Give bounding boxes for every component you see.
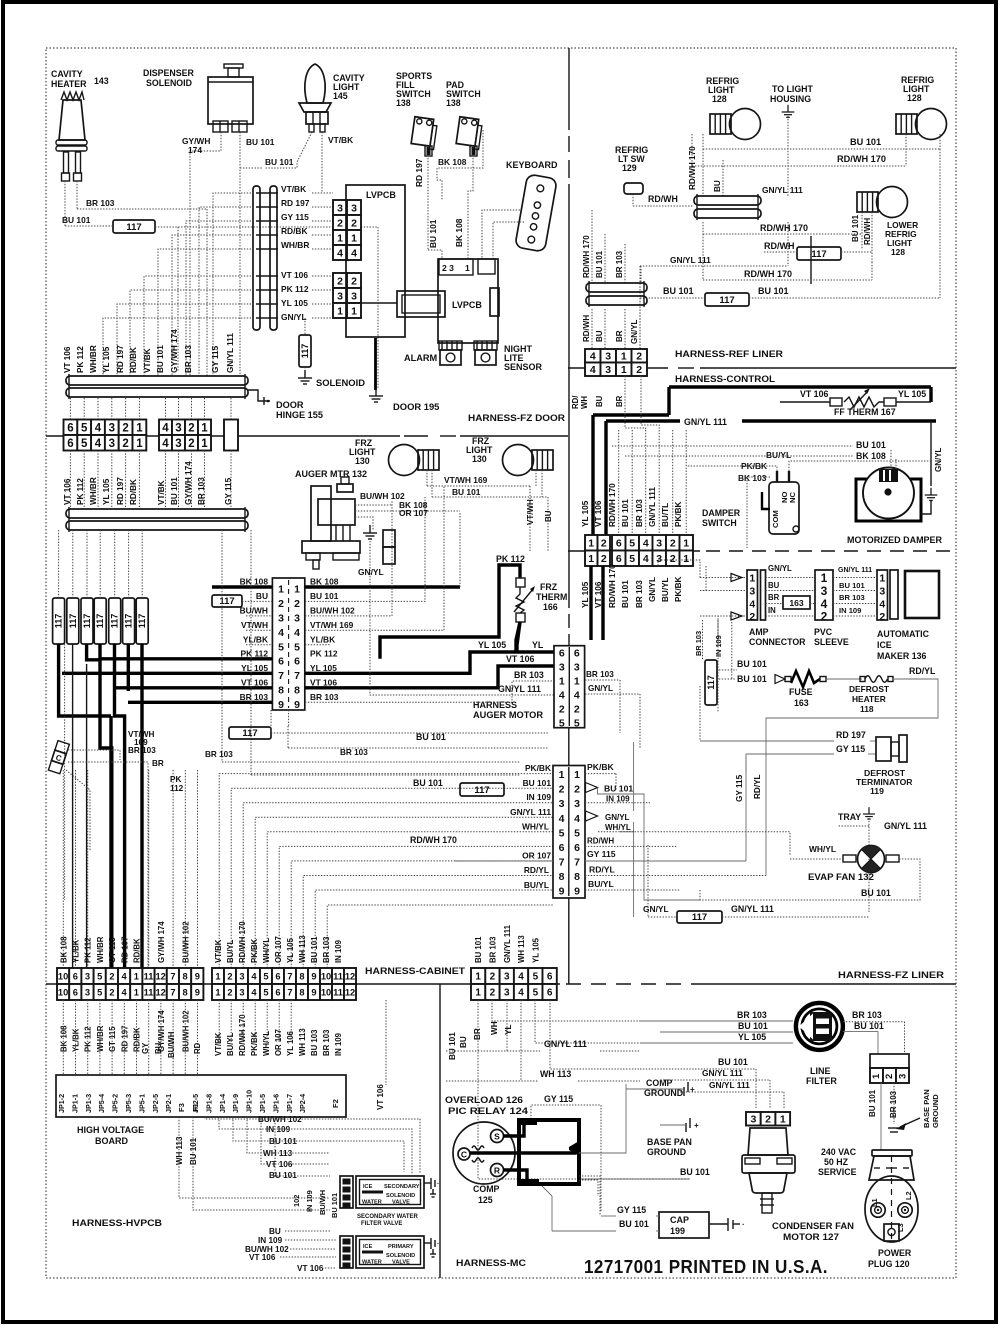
svg-text:DOOR 195: DOOR 195 [393,401,439,412]
svg-text:11: 11 [333,971,343,981]
svg-text:5: 5 [559,827,565,839]
svg-text:VT/WH: VT/WH [241,620,268,630]
svg-text:RD/WH: RD/WH [764,241,795,251]
svg-text:3: 3 [504,972,510,983]
svg-text:RD/WH: RD/WH [863,218,872,245]
sports fill switch 138 [411,117,438,150]
svg-text:BK 103: BK 103 [738,473,767,483]
damper switch wires [789,461,931,471]
svg-text:YL 105: YL 105 [281,298,308,308]
wires frz lights [426,470,428,486]
wire BU/WH pin3 [246,615,272,617]
svg-text:9: 9 [559,886,565,898]
svg-text:BU 101: BU 101 [619,1219,649,1229]
svg-text:RD/WH 170: RD/WH 170 [744,269,792,279]
svg-text:PIC RELAY 124: PIC RELAY 124 [448,1106,528,1116]
svg-text:BASE PAN: BASE PAN [647,1137,692,1147]
svg-text:BU: BU [595,330,604,342]
svg-text:OR 107: OR 107 [274,936,283,963]
svg-text:2: 2 [351,217,357,229]
svg-text:5: 5 [574,718,580,730]
thick wires auger pins 6-9 left [100,657,272,660]
svg-text:9: 9 [574,886,580,898]
wire RD/YL loop [766,679,938,876]
svg-text:2: 2 [227,987,232,997]
svg-text:4: 4 [518,972,524,983]
svg-text:199: 199 [670,1226,685,1236]
ice maker connector [877,570,888,620]
svg-text:HARNESS-MC: HARNESS-MC [456,1258,526,1268]
ref liner lamp holder bars [586,283,647,292]
svg-text:PK 112: PK 112 [310,648,338,658]
svg-text:RD/: RD/ [571,395,580,409]
svg-text:12: 12 [156,971,166,981]
svg-text:2: 2 [670,553,676,565]
secondary valve cap symbol [424,1182,431,1184]
svg-text:YL/BK: YL/BK [72,1028,81,1052]
svg-text:PK/BK: PK/BK [525,763,551,773]
svg-text:BU 101: BU 101 [265,157,294,167]
svg-text:174: 174 [188,145,202,155]
wire to defrost heater [826,678,862,680]
svg-text:PK/BK: PK/BK [674,501,683,527]
svg-text:DOOR: DOOR [276,400,304,410]
svg-text:SERVICE: SERVICE [818,1167,857,1177]
svg-text:PK: PK [170,775,181,784]
wire GN/YL right [370,541,554,695]
svg-text:DEFROST: DEFROST [849,684,890,694]
svg-text:SWITCH: SWITCH [702,518,737,528]
svg-text:FILTER VALVE: FILTER VALVE [361,1221,402,1227]
svg-text:AMP: AMP [749,627,769,637]
svg-text:1: 1 [278,584,284,596]
svg-text:WH: WH [580,396,589,409]
svg-text:HEATER: HEATER [852,694,886,704]
wire BR 103 row [288,747,548,749]
svg-text:128: 128 [712,94,727,104]
svg-text:4: 4 [559,813,565,825]
svg-text:BU 101: BU 101 [737,674,767,684]
door hinge bars upper [66,376,248,385]
svg-text:BU 101: BU 101 [850,137,881,147]
svg-text:4: 4 [95,438,102,450]
svg-text:BU 101: BU 101 [868,1089,877,1117]
svg-text:WH 113: WH 113 [298,935,307,963]
svg-text:JP2-4: JP2-4 [298,1094,307,1113]
svg-text:BU 101: BU 101 [310,936,319,963]
svg-text:BR 103: BR 103 [322,936,331,963]
control connector 6-5-4-3-2-1 block [612,535,626,551]
svg-text:1: 1 [879,573,885,585]
refrig lt sw 129 [624,183,643,194]
svg-text:BK 108: BK 108 [240,577,269,587]
svg-text:BU 101: BU 101 [595,250,604,278]
svg-text:2: 2 [122,438,128,450]
svg-text:BU 101: BU 101 [330,1193,339,1218]
auger 9-pin connector [272,578,304,710]
wires from thermostat [68,750,120,760]
svg-text:WH/YL: WH/YL [262,1031,271,1056]
frz door thermostat C [48,741,69,774]
svg-text:SECONDARY: SECONDARY [384,1184,420,1190]
svg-text:VT 106: VT 106 [376,1084,385,1110]
svg-text:117: 117 [54,614,64,629]
svg-text:RD 197: RD 197 [414,158,424,187]
svg-text:RD/WH 170: RD/WH 170 [608,483,617,527]
svg-text:GY: GY [141,1042,150,1054]
svg-text:GN/YL 111: GN/YL 111 [684,417,727,427]
svg-text:3: 3 [294,612,300,624]
svg-text:1: 1 [559,769,565,781]
wire loop to valves [330,1119,420,1174]
svg-text:143: 143 [94,76,109,86]
compressor 125 [453,1122,515,1184]
svg-text:RD 197: RD 197 [116,477,125,505]
wire to splice [65,225,113,227]
svg-text:166: 166 [543,602,558,612]
svg-text:PK 112: PK 112 [241,648,269,658]
svg-text:2: 2 [109,987,114,997]
wire dispenser BU 101 [239,132,241,376]
svg-text:1: 1 [821,571,828,585]
svg-text:BU 101: BU 101 [839,581,866,590]
svg-text:VT 106: VT 106 [241,677,268,687]
svg-text:10: 10 [321,971,331,981]
svg-text:8: 8 [574,871,580,883]
svg-text:6: 6 [559,842,565,854]
divider vertical x440 (HVPCB/MC) [439,984,441,1278]
seven 117 splice boxes [53,598,65,644]
svg-text:5: 5 [81,438,88,450]
svg-text:YL 105: YL 105 [310,663,337,673]
svg-text:BU 101: BU 101 [856,440,886,450]
divider control/cabinet line [568,550,700,552]
svg-text:3: 3 [605,364,611,376]
svg-text:117: 117 [124,614,134,629]
thick wire YL 105 right [305,652,554,673]
svg-text:YL 105: YL 105 [898,389,926,399]
svg-text:BU 101: BU 101 [663,286,694,296]
svg-text:GN/YL: GN/YL [643,904,669,914]
svg-text:WATER: WATER [362,1260,382,1266]
svg-text:JP1-9: JP1-9 [231,1094,240,1113]
svg-text:1: 1 [134,971,139,981]
svg-text:130: 130 [472,454,487,464]
svg-text:4: 4 [337,247,343,259]
divider HARNESS-REF LINER line [568,367,640,369]
thick verticals from 117 boxes to cabinet [59,644,111,716]
wire GN/YL row [640,265,788,267]
svg-text:5: 5 [97,971,102,981]
svg-text:6: 6 [275,971,280,981]
svg-text:BR 103: BR 103 [737,1010,767,1020]
svg-text:112: 112 [170,784,184,793]
svg-text:JP1-8: JP1-8 [204,1094,213,1113]
svg-text:JP5-4: JP5-4 [97,1094,106,1113]
wires connector A down [69,451,71,510]
svg-text:BR 103: BR 103 [615,250,624,278]
svg-text:RD 197: RD 197 [836,730,866,740]
svg-text:117: 117 [126,222,141,233]
label BR 103 splice row [229,727,271,739]
svg-text:BU 101: BU 101 [448,1032,457,1060]
wire BU 101 top [703,148,940,150]
svg-text:4: 4 [590,351,596,363]
svg-text:COM: COM [771,510,780,528]
svg-text:VT 106: VT 106 [310,677,337,687]
svg-text:BU 103: BU 103 [310,1029,319,1056]
svg-text:9: 9 [311,987,316,997]
svg-text:BR 103: BR 103 [839,593,865,602]
svg-text:GN/YL: GN/YL [648,577,657,602]
wires holder to ref block [591,309,593,349]
svg-text:2: 2 [351,275,357,287]
evap wires [700,859,920,900]
svg-text:2: 2 [574,704,580,716]
svg-text:WH/YL: WH/YL [605,823,631,832]
comp ground symbol [687,1082,689,1092]
svg-text:5: 5 [629,553,635,565]
svg-text:GN/YL 111: GN/YL 111 [503,924,512,963]
auger cap component [383,530,395,547]
svg-text:3: 3 [85,987,90,997]
svg-text:119: 119 [870,786,884,796]
svg-text:SOLENOID: SOLENOID [386,1193,415,1199]
svg-text:BU: BU [544,510,553,522]
secondary water valve [340,1176,353,1208]
svg-text:2: 2 [188,438,194,450]
svg-text:AUGER MTR 132: AUGER MTR 132 [295,469,367,479]
svg-text:COMP: COMP [646,1078,673,1088]
svg-text:1: 1 [683,538,689,550]
svg-text:HARNESS-FZ DOOR: HARNESS-FZ DOOR [468,413,565,423]
divider HARNESS-FZ DOOR line [46,435,400,437]
svg-text:4: 4 [95,422,102,434]
svg-text:BK 108: BK 108 [59,1025,68,1052]
cabinet block 3 [471,968,485,984]
svg-text:6: 6 [294,655,300,667]
svg-text:HARNESS-CONTROL: HARNESS-CONTROL [675,374,775,384]
svg-text:JP1-4: JP1-4 [218,1094,227,1113]
svg-text:JP2-5: JP2-5 [151,1094,160,1113]
svg-text:L3: L3 [896,1223,905,1232]
svg-text:7: 7 [170,987,175,997]
svg-text:WH 113: WH 113 [298,1028,307,1056]
svg-text:12: 12 [345,971,355,981]
svg-text:3: 3 [109,438,115,450]
svg-text:125: 125 [478,1195,493,1205]
svg-text:PK/BK: PK/BK [250,938,259,963]
svg-text:RD/WH 170: RD/WH 170 [688,146,697,190]
svg-text:BU 101: BU 101 [523,778,552,788]
svg-text:BU 101: BU 101 [758,286,789,296]
svg-text:BU 101: BU 101 [452,487,481,497]
auger motor wires right [355,504,392,506]
svg-text:RD 197: RD 197 [281,198,310,208]
connector block door 6-5-4-3-2-1 [64,420,78,436]
connector block door 4-3-2-1 [159,420,172,436]
svg-text:TERMINATOR: TERMINATOR [856,777,913,787]
svg-text:BU 101: BU 101 [62,215,91,225]
svg-text:BU/YL: BU/YL [661,577,670,602]
svg-text:CAVITY: CAVITY [51,69,83,79]
svg-text:YL 105: YL 105 [102,346,111,373]
dispenser solenoid [224,64,243,68]
svg-text:BR 103: BR 103 [340,748,368,757]
svg-text:BU 101: BU 101 [718,1057,748,1067]
svg-text:GN/YL 111: GN/YL 111 [226,333,235,373]
svg-text:WH: WH [490,1021,499,1035]
svg-text:RD/WH: RD/WH [648,194,678,204]
lamp holder bars center [694,196,761,205]
svg-text:2: 2 [601,538,607,550]
svg-text:OR 107: OR 107 [399,508,428,518]
svg-text:240 VAC: 240 VAC [821,1147,857,1157]
svg-text:PRIMARY: PRIMARY [388,1244,414,1250]
line filter connector [870,1054,909,1068]
svg-text:138: 138 [446,98,461,108]
svg-text:7: 7 [574,856,580,868]
svg-text:L2: L2 [904,1191,913,1200]
blank cell [224,420,238,451]
svg-text:YL 106: YL 106 [286,1030,295,1056]
svg-text:YL/BK: YL/BK [72,939,81,963]
condenser fan motor 127 [746,1112,761,1126]
svg-text:3: 3 [175,438,181,450]
svg-text:145: 145 [333,91,348,101]
svg-text:1: 1 [621,351,627,363]
wires cab3 pins down [478,1000,690,1179]
svg-text:BU 101: BU 101 [737,659,767,669]
svg-text:BR: BR [768,593,780,602]
wires center light down [702,149,704,196]
svg-text:6: 6 [559,648,565,660]
svg-text:JP5-1: JP5-1 [137,1094,146,1113]
svg-text:BU 101: BU 101 [310,591,339,601]
svg-text:1: 1 [475,972,481,983]
svg-text:GN/YL: GN/YL [588,684,613,693]
svg-text:PK 112: PK 112 [281,284,309,294]
svg-text:BR 103: BR 103 [240,692,269,702]
svg-text:1: 1 [621,364,627,376]
svg-text:YL: YL [504,1025,513,1035]
svg-text:IN 109: IN 109 [334,939,343,963]
svg-text:117: 117 [137,614,147,629]
svg-text:WH/BR: WH/BR [96,936,105,963]
svg-text:RD/BK: RD/BK [129,479,138,505]
svg-text:1: 1 [351,232,357,244]
svg-text:117: 117 [719,295,734,306]
svg-text:ICE: ICE [363,1244,373,1250]
svg-text:117: 117 [82,614,92,629]
svg-text:4: 4 [574,690,580,702]
base pan ground arrow [900,1118,920,1127]
svg-text:MOTORIZED DAMPER: MOTORIZED DAMPER [847,535,943,545]
svg-text:2: 2 [278,598,284,610]
svg-text:8: 8 [183,987,188,997]
svg-text:3: 3 [337,202,343,214]
svg-text:CONDENSER FAN: CONDENSER FAN [772,1221,854,1231]
wire cavity heater BR 103 [76,181,78,209]
svg-text:VT/BK: VT/BK [143,348,152,373]
svg-text:7: 7 [287,987,292,997]
svg-text:7: 7 [559,856,565,868]
divider vertical x569 [568,48,570,130]
svg-text:3: 3 [175,422,181,434]
svg-text:128: 128 [907,93,922,103]
svg-text:HARNESS: HARNESS [473,700,517,710]
svg-text:GY 115: GY 115 [544,1094,573,1104]
door hinge symbol [248,390,270,401]
frz light 130 left [389,445,420,476]
svg-text:OR 107: OR 107 [522,851,551,861]
svg-text:4: 4 [162,422,169,434]
svg-text:YL 105: YL 105 [241,663,268,673]
wire RD/WH 170 top [692,165,906,167]
svg-text:3: 3 [879,586,885,598]
arrow BU 101 [775,675,785,684]
svg-text:GN/YL 111: GN/YL 111 [709,1080,750,1090]
svg-text:6: 6 [547,972,553,983]
svg-text:JP1-6: JP1-6 [271,1094,280,1113]
svg-text:1: 1 [871,1073,882,1079]
svg-text:1: 1 [475,988,481,999]
auger motor 132 [311,486,331,541]
svg-text:4: 4 [251,987,257,997]
refrig light 128 right [896,114,917,134]
wires cabinet to board [62,1000,64,1075]
svg-text:12: 12 [345,987,355,997]
svg-text:BU: BU [269,1227,281,1236]
svg-text:3: 3 [898,1074,909,1079]
svg-text:VT/BK: VT/BK [281,184,306,194]
wires liner right side [585,773,616,775]
svg-text:9: 9 [278,699,284,711]
wire feeders through splice region [221,530,223,762]
svg-text:3: 3 [559,662,565,674]
svg-text:MOTOR 127: MOTOR 127 [783,1232,839,1242]
svg-text:YL 105: YL 105 [531,937,540,963]
svg-text:3: 3 [559,798,565,810]
svg-text:VT 106: VT 106 [800,389,828,399]
frz therm 166 [516,578,525,587]
svg-text:SOLENOID: SOLENOID [386,1253,415,1259]
svg-text:IN 109: IN 109 [258,1236,283,1245]
svg-text:BU/YL: BU/YL [766,450,791,460]
svg-text:1: 1 [465,263,470,273]
wire BU pin2 [242,600,272,602]
svg-text:·: · [437,1181,439,1188]
svg-text:3: 3 [656,538,662,550]
svg-text:4: 4 [294,627,300,639]
alarm terminal [439,341,462,350]
svg-text:2: 2 [188,422,194,434]
auger ground [363,525,377,539]
svg-text:3: 3 [351,290,357,302]
svg-text:LVPCB: LVPCB [452,300,482,310]
svg-text:WH/YL: WH/YL [809,844,836,854]
svg-text:GROUND: GROUND [644,1088,683,1098]
svg-text:MAKER 136: MAKER 136 [877,651,926,661]
wire cavity heater BU 101 [64,181,66,226]
svg-text:GN/YL: GN/YL [281,312,307,322]
svg-text:RD/WH: RD/WH [582,315,591,342]
svg-text:JP1-3: JP1-3 [84,1094,93,1113]
svg-text:3: 3 [750,1114,756,1126]
svg-text:11: 11 [144,987,154,997]
wire keyboard to LVPCB [482,210,520,259]
ground + SOLENOID [304,318,306,335]
